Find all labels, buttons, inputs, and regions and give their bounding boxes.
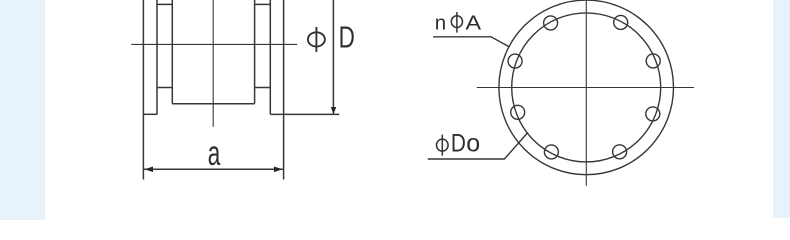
- bolt hole 7 (left-lower): [511, 105, 525, 119]
- left flange bottom edge: [143, 113, 157, 115]
- bolt hole 4 (right-lower): [646, 107, 660, 121]
- left view: vertical centerline: [212, 0, 214, 127]
- arrowhead of a dimension (left): [145, 167, 153, 173]
- right hub / bellows side edge: [254, 0, 256, 104]
- leader line nPhiA: [433, 37, 509, 47]
- right view: horizontal centerline: [477, 87, 694, 89]
- left hub / bellows side edge: [171, 0, 173, 104]
- right flange outer face + a-dim extension line: [283, 0, 285, 180]
- right hub top edge: [255, 3, 271, 5]
- svg-text:n: n: [435, 11, 446, 34]
- svg-text:D: D: [339, 21, 355, 55]
- svg-text:o: o: [466, 130, 480, 158]
- left hub top edge: [157, 3, 172, 5]
- right hub bottom edge: [255, 87, 271, 89]
- arrowhead of D dimension (down): [331, 107, 337, 114]
- right flange inner face: [269, 0, 271, 114]
- arrowhead of a dimension (right): [274, 167, 282, 173]
- left page-edge blue band: [0, 0, 45, 220]
- right view: vertical centerline: [585, 0, 587, 186]
- dimension line for a (horizontal): [143, 168, 283, 170]
- bolt hole 6 (bottom-left): [544, 145, 558, 159]
- svg-text:D: D: [451, 130, 466, 158]
- right view: bolt circle: [512, 13, 661, 162]
- svg-text:a: a: [208, 134, 221, 173]
- leader line PhiDo: [428, 132, 528, 159]
- bolt hole 1 (top-left): [544, 16, 558, 30]
- left flange outer face + a-dim extension line: [142, 0, 144, 180]
- label Phi of nPhiA (drawn phi symbol): [451, 12, 462, 33]
- label Phi of PhiD (drawn phi symbol): [308, 27, 325, 52]
- bolt hole 2 (top-right): [614, 15, 628, 29]
- right page-edge blue band: [773, 0, 790, 218]
- svg-text:A: A: [466, 11, 482, 34]
- left view: horizontal centerline: [131, 43, 297, 45]
- left flange inner face: [156, 0, 158, 114]
- bolt hole 3 (right-upper): [646, 54, 660, 68]
- bolt hole 5 (bottom-right): [613, 145, 627, 159]
- bellows bottom edge: [172, 103, 254, 105]
- dimension line for D (vertical): [332, 0, 334, 114]
- right flange bottom edge + D-dim extension line: [270, 113, 339, 115]
- right view: outer flange circle: [499, 0, 674, 175]
- bolt hole 8 (left-upper): [508, 54, 522, 68]
- left hub bottom edge: [157, 87, 172, 89]
- label Phi of PhiDo (drawn phi symbol): [437, 135, 449, 156]
